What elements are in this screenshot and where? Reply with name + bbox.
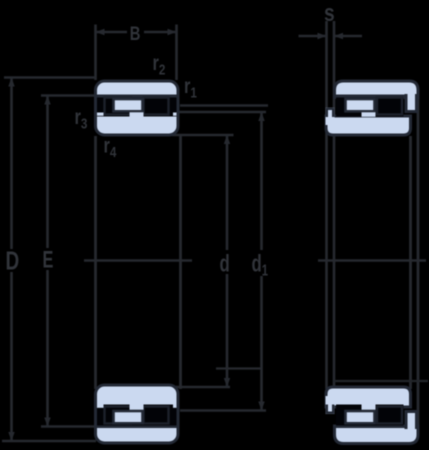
label d	[220, 251, 230, 278]
left lower cage piece	[114, 411, 143, 423]
right bearing centerline	[318, 259, 426, 262]
label r2 (outer ring side face corner radius)	[153, 51, 166, 78]
dimension B line	[96, 29, 177, 35]
dimension d1 extension line bottom outer	[216, 367, 262, 369]
dimension E extension line top	[41, 94, 96, 97]
label E	[43, 246, 54, 273]
right upper inner-ring left flange	[326, 108, 335, 126]
right bearing upper section: outer ring band	[335, 81, 419, 98]
right lower inner-ring central flange	[362, 405, 376, 410]
right upper inner-ring central flange	[362, 112, 376, 117]
dimension s arrow left	[299, 33, 327, 39]
right lower cage piece	[346, 411, 375, 423]
right upper roller cavity (black zone)	[336, 98, 404, 117]
svg-text:E: E	[43, 246, 54, 273]
dimension D line	[8, 78, 14, 442]
right lower outer-ring right flange	[405, 410, 419, 429]
label d1	[252, 251, 269, 279]
right lower roller cavity (black zone)	[336, 405, 404, 426]
dimension s extension line left (inner ring face)	[325, 21, 328, 389]
left bearing lower section: ring block	[96, 385, 179, 443]
dimension d1 extension line bottom inner	[180, 409, 266, 411]
left upper seal sliver left	[97, 113, 104, 116]
dimension d1 line	[258, 112, 264, 411]
dimension D extension line top	[4, 76, 96, 79]
left lower outer raceway line	[97, 425, 178, 428]
label r4 (inner ring bore corner radius)	[104, 134, 117, 161]
svg-text:D: D	[6, 246, 20, 276]
dimension s arrow right	[334, 33, 362, 39]
left lower roller outline right	[144, 407, 169, 424]
label B	[130, 22, 141, 45]
right upper cage piece	[346, 99, 375, 111]
dimension d line	[224, 135, 230, 387]
left lower roller outline left	[105, 407, 132, 424]
right bearing lower section: inner ring band	[326, 387, 411, 407]
svg-text:B: B	[130, 22, 141, 45]
label s	[324, 0, 335, 26]
left upper roller outline left	[105, 98, 132, 115]
right lower roller outline	[377, 407, 402, 424]
left upper cage piece	[114, 99, 143, 111]
left upper inner-ring central flange	[130, 112, 144, 117]
left bearing upper section: ring block	[96, 81, 179, 135]
right lower raceway line	[336, 425, 405, 428]
left upper roller outline right	[144, 98, 169, 115]
label D	[6, 246, 20, 276]
right bearing outer-ring face silhouette right	[417, 95, 420, 428]
dimension B extension line left	[94, 25, 97, 81]
svg-text:s: s	[324, 0, 335, 26]
right bearing inner-ring face silhouette right	[409, 136, 412, 389]
dimension s extension line right (outer ring face)	[333, 21, 336, 389]
svg-text:d: d	[220, 251, 230, 278]
left upper roller cavity (black zone)	[97, 98, 177, 117]
label r1 (outer ring OD corner radius)	[184, 74, 197, 101]
left lower seal sliver left	[97, 405, 104, 408]
dimension E line	[44, 96, 50, 427]
dimension d extension line bottom	[172, 386, 230, 389]
right upper inner ring band	[326, 116, 411, 135]
dimension B extension line right	[175, 25, 178, 81]
left bearing centerline	[84, 259, 192, 262]
label r3 (inner ring corner radius)	[75, 105, 88, 132]
dimension d extension line top	[172, 134, 234, 137]
left lower seal sliver right	[173, 405, 177, 408]
dimension E extension line bottom	[41, 425, 96, 428]
left bearing side-face silhouette line left	[94, 136, 97, 389]
left upper seal sliver right	[173, 113, 177, 116]
right upper roller outline	[377, 98, 402, 115]
dimension d1 extension line top outer	[180, 104, 268, 106]
right lower inner-ring left flange	[326, 396, 335, 414]
right lower outer ring band	[335, 426, 419, 444]
right drawing lower extension line	[334, 380, 428, 382]
dimension d1 extension line top inner	[178, 111, 266, 113]
left upper outer raceway line	[97, 95, 178, 98]
left bearing side-face silhouette line right	[179, 136, 182, 389]
right upper raceway line	[336, 95, 405, 98]
left lower roller cavity (black zone)	[97, 405, 177, 426]
right upper outer-ring right flange	[405, 94, 419, 113]
left lower inner-ring central flange	[130, 405, 144, 410]
dimension D extension line bottom	[2, 440, 96, 443]
